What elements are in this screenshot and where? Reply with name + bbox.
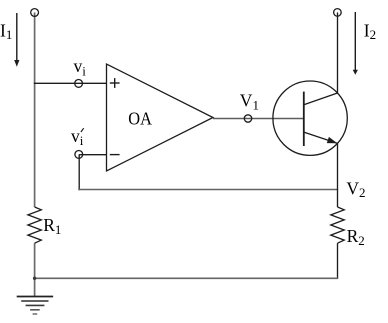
- node vi': [75, 151, 83, 159]
- wire left vertical (terminal to R1): [34, 13, 36, 208]
- current arrow I2: [353, 12, 358, 75]
- wire bottom horizontal: [34, 277, 338, 279]
- terminal T2: [334, 9, 342, 17]
- wire transistor base: [275, 118, 304, 120]
- transistor Q1: [273, 81, 347, 155]
- wire emitter vertical to R2: [337, 143, 339, 207]
- wire + input horizontal: [34, 82, 107, 84]
- wire R2 bottom vertical: [337, 243, 339, 279]
- wire R1 bottom to ground: [34, 243, 36, 296]
- wire op-amp output: [213, 118, 275, 120]
- ground: [17, 297, 53, 315]
- svg-text:OA: OA: [128, 109, 152, 129]
- junction dot: [33, 277, 36, 280]
- wire feedback horizontal (to node V2): [78, 189, 338, 191]
- wire collector vertical: [337, 12, 339, 93]
- op-amp U1: [107, 64, 214, 171]
- resistor R1: [28, 207, 41, 243]
- current arrow I1: [14, 13, 19, 67]
- wire - input horizontal: [79, 154, 106, 156]
- terminal T1: [31, 9, 39, 17]
- node V1: [244, 115, 251, 122]
- wire feedback vertical: [78, 154, 80, 190]
- resistor R2: [331, 207, 344, 243]
- node vi: [75, 80, 83, 88]
